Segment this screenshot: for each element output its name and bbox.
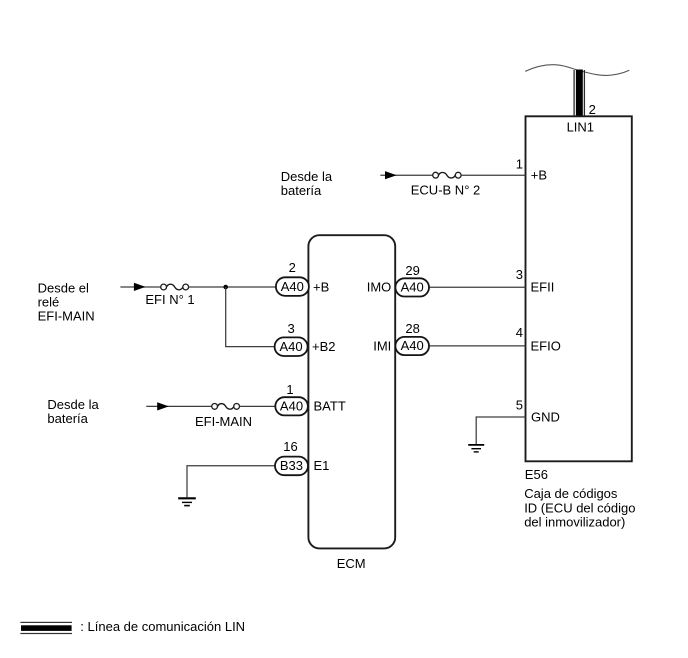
svg-text:del inmovilizador): del inmovilizador) — [524, 515, 625, 530]
svg-text:LIN1: LIN1 — [567, 120, 594, 135]
svg-text:A40: A40 — [280, 399, 303, 414]
svg-text:E1: E1 — [314, 458, 330, 473]
svg-text:3: 3 — [516, 267, 523, 282]
svg-text:relé: relé — [38, 294, 60, 309]
svg-text:+B: +B — [531, 168, 547, 183]
svg-text:A40: A40 — [280, 339, 303, 354]
svg-text:E56: E56 — [525, 467, 548, 482]
svg-text:IMO: IMO — [367, 279, 392, 294]
svg-text:Caja de códigos: Caja de códigos — [524, 486, 618, 501]
svg-text:EFI-MAIN: EFI-MAIN — [195, 414, 252, 429]
svg-text:+B: +B — [313, 280, 329, 295]
svg-text:Desde la: Desde la — [47, 397, 99, 412]
svg-text:B33: B33 — [280, 458, 303, 473]
svg-text:16: 16 — [283, 439, 297, 454]
svg-text:A40: A40 — [281, 279, 304, 294]
svg-text:ID (ECU del código: ID (ECU del código — [524, 500, 635, 515]
svg-text:BATT: BATT — [314, 399, 346, 414]
svg-text:EFI N° 1: EFI N° 1 — [145, 292, 194, 307]
svg-text:1: 1 — [286, 382, 293, 397]
svg-text:29: 29 — [405, 263, 419, 278]
svg-text:EFIO: EFIO — [531, 339, 561, 354]
svg-text:: Línea de comunicación LIN: : Línea de comunicación LIN — [80, 619, 245, 634]
svg-text:3: 3 — [287, 321, 294, 336]
svg-text:EFII: EFII — [531, 280, 555, 295]
svg-text:batería: batería — [281, 183, 322, 198]
svg-text:GND: GND — [531, 410, 560, 425]
svg-text:1: 1 — [516, 157, 523, 172]
svg-text:IMI: IMI — [373, 338, 391, 353]
svg-text:EFI-MAIN: EFI-MAIN — [38, 308, 95, 323]
svg-text:+B2: +B2 — [312, 339, 336, 354]
svg-text:A40: A40 — [401, 338, 424, 353]
svg-text:2: 2 — [289, 260, 296, 275]
svg-text:4: 4 — [516, 325, 523, 340]
svg-text:ECU-B N° 2: ECU-B N° 2 — [411, 183, 481, 198]
svg-text:ECM: ECM — [337, 556, 366, 571]
svg-text:2: 2 — [589, 102, 596, 117]
svg-text:Desde el: Desde el — [38, 280, 89, 295]
svg-text:Desde la: Desde la — [281, 169, 333, 184]
svg-text:5: 5 — [516, 397, 523, 412]
svg-text:A40: A40 — [401, 280, 424, 295]
svg-text:28: 28 — [405, 321, 419, 336]
svg-text:batería: batería — [47, 411, 88, 426]
